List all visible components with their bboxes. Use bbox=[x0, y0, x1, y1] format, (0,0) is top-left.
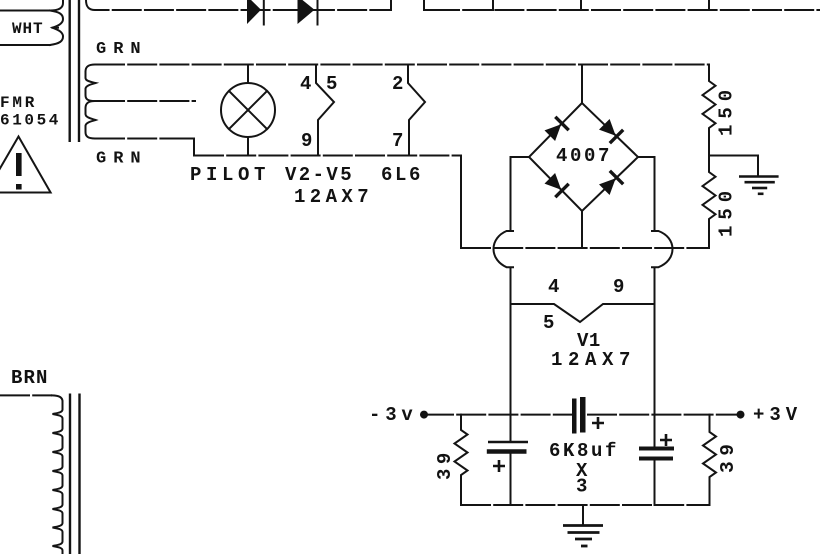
V1 heater element with center tap notch bbox=[511, 304, 655, 322]
node dot +3v bbox=[737, 411, 745, 419]
transformer T1 filament secondary winding (GRN) bbox=[86, 65, 96, 139]
warning triangle symbol bbox=[0, 137, 51, 193]
wire stub up at 581 bbox=[580, 0, 582, 10]
svg-text:FMR: FMR bbox=[0, 94, 37, 112]
ground symbol bottom bbox=[563, 505, 603, 546]
diode bridge lower-left bbox=[545, 173, 569, 197]
resistor R-39 right bbox=[703, 415, 716, 505]
svg-text:12AX7: 12AX7 bbox=[551, 349, 636, 371]
svg-text:61054: 61054 bbox=[0, 112, 61, 130]
wire heater bus drop to DC bus bbox=[460, 156, 462, 249]
wire ground tap bbox=[709, 156, 758, 177]
svg-text:9: 9 bbox=[301, 130, 312, 152]
wire top-right cropped bus bbox=[430, 9, 820, 11]
svg-text:6K8uf: 6K8uf bbox=[549, 440, 619, 462]
wire stub up at 709 bbox=[708, 0, 710, 10]
svg-text:3: 3 bbox=[576, 476, 587, 498]
svg-text:9: 9 bbox=[613, 276, 624, 298]
diode bridge upper-right bbox=[599, 119, 623, 143]
wire top AC line from transformer top secondary bbox=[86, 0, 391, 10]
wire bridge top stub bbox=[581, 65, 583, 104]
svg-text:5: 5 bbox=[543, 312, 554, 334]
svg-text:4007: 4007 bbox=[556, 145, 612, 167]
capacitor C-right electrolytic bbox=[639, 434, 674, 505]
wire -3v rail bbox=[424, 414, 573, 416]
svg-text:7: 7 bbox=[392, 130, 403, 152]
svg-text:WHT: WHT bbox=[12, 20, 44, 38]
resistor R-39 left bbox=[455, 415, 468, 505]
svg-text:GRN: GRN bbox=[96, 150, 148, 169]
wire stub up at 493 bbox=[492, 0, 494, 10]
wire filament top bus bbox=[95, 64, 709, 66]
wire bridge left arm bbox=[511, 157, 530, 230]
diode D-top1 bbox=[247, 0, 264, 25]
wire bridge right arm bbox=[638, 157, 655, 230]
svg-text:12AX7: 12AX7 bbox=[294, 186, 373, 208]
capacitor C-series 6K8uf bbox=[572, 397, 604, 434]
svg-text:BRN: BRN bbox=[11, 367, 49, 389]
wire V1 right lead down bbox=[654, 269, 656, 447]
diode bridge lower-right bbox=[599, 171, 623, 195]
node dot -3v bbox=[420, 411, 428, 419]
transformer T2 core bbox=[70, 394, 80, 554]
connector arc right (tube V1 envelope) bbox=[652, 231, 673, 267]
transformer T1 primary winding (WHT) bbox=[0, 0, 63, 45]
svg-text:150: 150 bbox=[716, 84, 738, 136]
transformer T1 core bbox=[70, 0, 79, 142]
diode bridge upper-left bbox=[545, 117, 569, 141]
node V2-V5 heater jog bbox=[316, 65, 334, 156]
svg-text:5: 5 bbox=[326, 73, 337, 95]
resistor R-150 lower bbox=[703, 156, 716, 249]
wire bottom ground bus bbox=[461, 504, 710, 506]
capacitor C-left electrolytic bbox=[487, 442, 528, 505]
wire vertical riser at end of diode line bbox=[390, 0, 392, 10]
svg-text:V2-V5: V2-V5 bbox=[285, 164, 354, 186]
wire filament middle tap stub bbox=[95, 100, 196, 102]
diode D-top2 bbox=[298, 0, 318, 25]
wire DC minus bus bbox=[461, 247, 709, 249]
svg-text:150: 150 bbox=[716, 185, 738, 237]
transformer T2 primary winding (BRN) bbox=[0, 395, 63, 554]
svg-text:39: 39 bbox=[434, 448, 456, 480]
svg-text:4: 4 bbox=[548, 276, 559, 298]
svg-text:39: 39 bbox=[717, 439, 739, 473]
svg-text:PILOT: PILOT bbox=[190, 164, 270, 186]
svg-text:+3V: +3V bbox=[753, 404, 802, 426]
node 6L6 heater jog bbox=[408, 65, 425, 156]
ground symbol right bbox=[739, 177, 779, 194]
svg-text:6L6: 6L6 bbox=[381, 164, 423, 186]
svg-text:4: 4 bbox=[300, 73, 311, 95]
connector arc left (tube V1 envelope) bbox=[494, 231, 514, 267]
svg-text:GRN: GRN bbox=[96, 40, 148, 59]
wire V1 left lead down bbox=[510, 269, 512, 442]
wire top-right cropped bus corner bbox=[424, 0, 432, 10]
wire bridge bottom stub bbox=[581, 211, 583, 248]
wire heater bottom bus bbox=[194, 155, 461, 157]
wire filament bottom tap corner bbox=[190, 139, 194, 156]
wire filament bottom tap bbox=[95, 138, 190, 140]
resistor R-150 upper bbox=[703, 65, 716, 156]
lamp PILOT bbox=[221, 65, 275, 156]
bridge rectifier frame bbox=[529, 103, 638, 211]
svg-text:2: 2 bbox=[392, 73, 403, 95]
wire +3v rail bbox=[587, 414, 741, 416]
svg-text:-3v: -3v bbox=[369, 404, 418, 426]
